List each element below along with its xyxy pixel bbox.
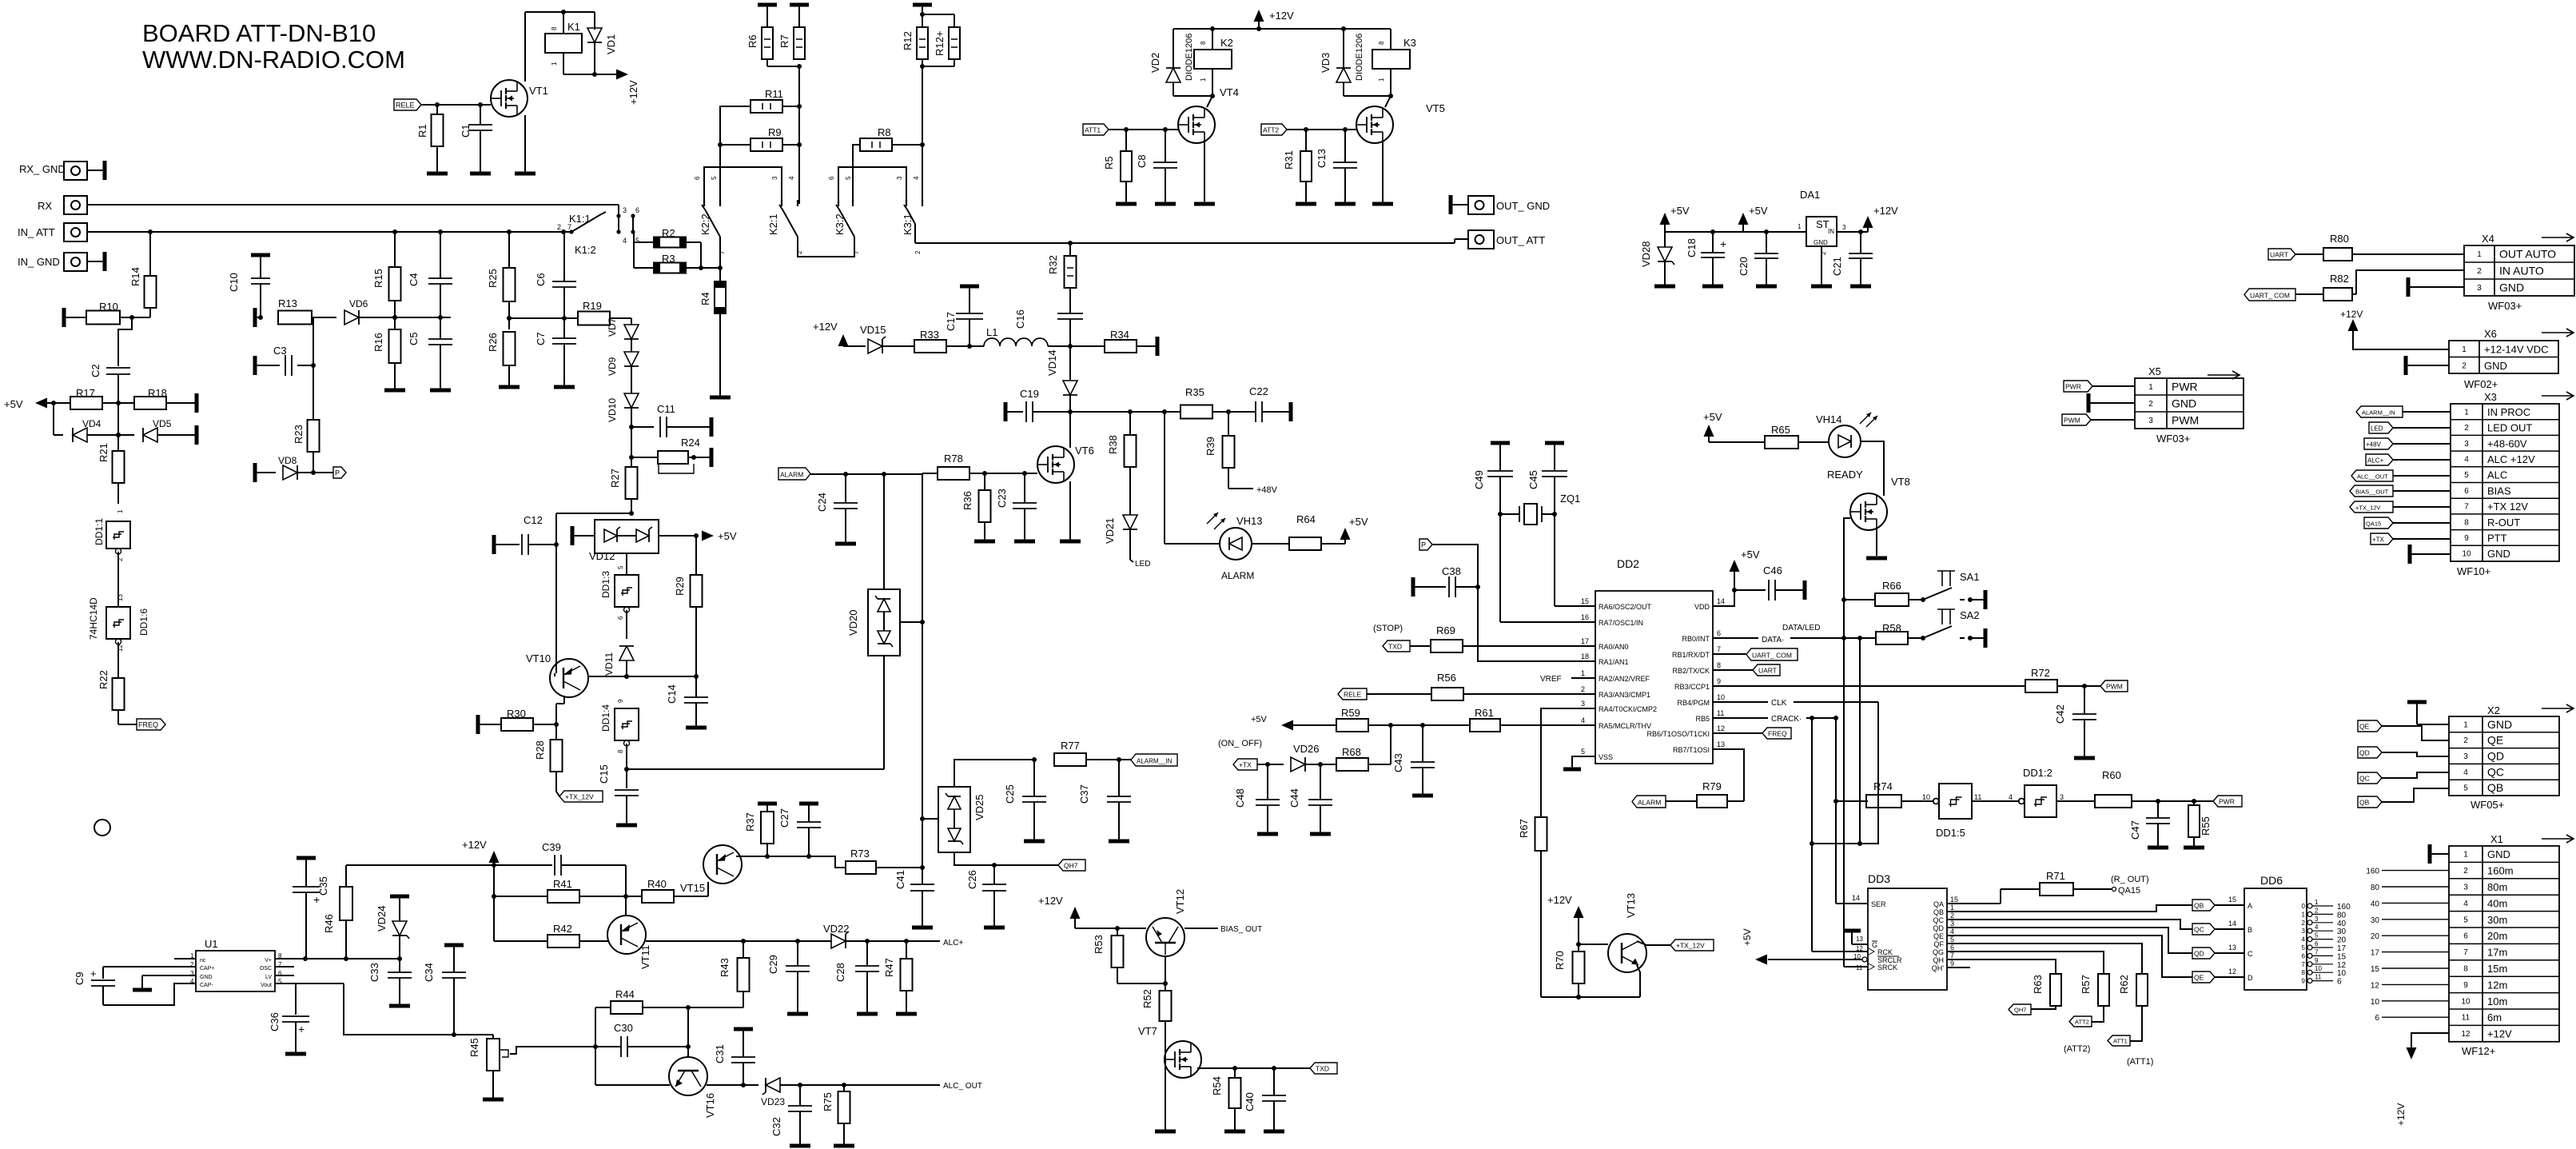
wire RELE to gate	[421, 102, 491, 107]
svg-text:R32: R32	[1047, 255, 1059, 274]
svg-text:2: 2	[557, 223, 561, 231]
capacitor C27	[778, 804, 821, 856]
switch K3:1	[896, 176, 922, 254]
svg-text:C15: C15	[598, 764, 610, 784]
power +12V arrow bl	[462, 839, 500, 868]
svg-text:C4: C4	[408, 273, 420, 286]
transistor VT7	[1138, 1025, 1201, 1078]
svg-text:READY: READY	[1827, 469, 1863, 481]
svg-text:VT4: VT4	[1220, 86, 1239, 98]
wire ATT2 gate	[1287, 127, 1356, 132]
svg-text:R4: R4	[699, 292, 711, 305]
resistor R60	[2095, 769, 2213, 808]
svg-text:C16: C16	[1014, 309, 1026, 329]
flag QB mid	[2192, 896, 2244, 911]
power +12V arrow RF	[813, 321, 866, 346]
flag FREQ DD2	[1713, 728, 1791, 739]
svg-text:+5V: +5V	[1703, 411, 1722, 423]
wire K1 bottom to +12V	[563, 72, 617, 77]
svg-text:0: 0	[2302, 903, 2306, 910]
flag QD mid	[2192, 944, 2244, 959]
capacitor C47	[2129, 801, 2170, 846]
svg-text:R11: R11	[765, 88, 783, 100]
svg-text:(ATT2): (ATT2)	[2064, 1044, 2090, 1054]
svg-text:VT8: VT8	[1891, 476, 1910, 488]
connector X2	[2449, 704, 2574, 811]
capacitor C44	[1288, 764, 1332, 832]
svg-text:14: 14	[1852, 894, 1860, 902]
svg-text:2: 2	[2302, 920, 2306, 927]
svg-text:WF02+: WF02+	[2464, 378, 2498, 390]
svg-text:(STOP): (STOP)	[1373, 624, 1403, 633]
svg-text:+TX: +TX	[1239, 761, 1252, 769]
svg-text:+5V: +5V	[4, 398, 23, 410]
svg-text:7: 7	[567, 223, 571, 231]
svg-text:C39: C39	[542, 841, 561, 853]
svg-text:C43: C43	[1392, 753, 1404, 772]
svg-text:R18: R18	[148, 387, 167, 399]
wire K3 pin4 col	[920, 66, 925, 204]
ground R4	[710, 396, 731, 400]
wire K3 pin5 col	[853, 145, 860, 204]
svg-text:VT11: VT11	[639, 945, 651, 969]
svg-text:12: 12	[1856, 945, 1863, 952]
svg-text:ATT1: ATT1	[2113, 1038, 2128, 1045]
svg-text:CRACK·: CRACK·	[1771, 715, 1802, 724]
wire RF mid row	[1070, 409, 1181, 414]
svg-text:R6: R6	[747, 34, 758, 48]
svg-text:QE: QE	[2194, 974, 2204, 982]
svg-text:2: 2	[914, 250, 922, 254]
svg-text:G: G	[1872, 941, 1877, 949]
wire R43 R44 row	[686, 1005, 743, 1010]
svg-text:WWW.DN-RADIO.COM: WWW.DN-RADIO.COM	[142, 46, 405, 74]
wire DD1:4 out	[627, 768, 884, 770]
svg-text:8: 8	[2463, 965, 2468, 974]
svg-text:RA0/AN0: RA0/AN0	[1599, 643, 1629, 651]
svg-text:R23: R23	[293, 425, 305, 444]
resistor R15	[372, 232, 401, 329]
text DIODE1206 K3	[1355, 34, 1364, 81]
capacitor C40	[1244, 1068, 1286, 1130]
svg-text:ALC +12V: ALC +12V	[2487, 453, 2535, 465]
diode VD5	[143, 418, 197, 442]
svg-text:P: P	[335, 469, 340, 477]
wire +12V rail bl	[346, 864, 552, 866]
svg-text:3: 3	[623, 206, 627, 214]
resistor R52	[1141, 989, 1172, 1130]
svg-text:7: 7	[2464, 503, 2469, 512]
resistor R13	[255, 297, 336, 327]
svg-text:+5V: +5V	[1742, 928, 1753, 946]
flag ATT2 out	[2064, 1016, 2092, 1054]
wire CRACK to RCK	[1811, 718, 1813, 844]
svg-text:QA15: QA15	[2118, 886, 2140, 896]
svg-text:C34: C34	[423, 963, 435, 982]
ground R47	[896, 1012, 917, 1016]
svg-text:C: C	[2248, 950, 2253, 958]
crystal ZQ1	[1500, 493, 1580, 525]
svg-text:+12V: +12V	[627, 80, 639, 105]
diode VD28	[1640, 232, 1674, 285]
transistor VT16	[669, 1057, 716, 1118]
svg-text:VT15: VT15	[680, 882, 705, 894]
svg-text:6: 6	[617, 616, 624, 620]
wire K2 pin5 col	[720, 106, 751, 204]
svg-text:VT12: VT12	[1174, 889, 1186, 914]
svg-text:RB2/TX/CK: RB2/TX/CK	[1672, 667, 1710, 675]
svg-text:7: 7	[1717, 645, 1721, 653]
svg-text:OUT_ GND: OUT_ GND	[1496, 200, 1550, 212]
ground VT6	[1060, 540, 1081, 544]
flag ALARM_IN X3	[2356, 406, 2451, 417]
wire VT10 emitter	[554, 696, 564, 727]
svg-text:R62: R62	[2118, 975, 2130, 994]
svg-text:C21: C21	[1831, 257, 1843, 276]
ground VT5	[1372, 202, 1393, 206]
ground R54	[1224, 1130, 1245, 1134]
wire K1 contacts	[619, 216, 634, 242]
svg-text:C19: C19	[1020, 388, 1039, 400]
power +5V arrow right VD12	[702, 530, 737, 542]
svg-text:DATA/LED: DATA/LED	[1782, 624, 1820, 632]
wire VT4 source	[1204, 142, 1205, 202]
svg-text:+5V: +5V	[1741, 549, 1760, 561]
resistor R1	[416, 105, 444, 172]
svg-text:R75: R75	[822, 1092, 834, 1111]
svg-text:QG: QG	[1933, 948, 1944, 956]
resistor R30	[478, 708, 556, 734]
svg-text:PWM: PWM	[2172, 414, 2199, 427]
svg-text:RA7/OSC1/IN: RA7/OSC1/IN	[1599, 619, 1643, 627]
svg-text:X5: X5	[2148, 365, 2161, 377]
wire +12V relay rail	[1173, 26, 1391, 31]
svg-text:VD22: VD22	[823, 923, 850, 935]
wire C12 col down	[555, 545, 557, 668]
flag QC X2	[2358, 772, 2449, 784]
svg-text:8: 8	[617, 749, 624, 753]
svg-text:C7: C7	[535, 332, 547, 345]
svg-text:C35: C35	[317, 876, 329, 896]
svg-text:7: 7	[2315, 948, 2319, 956]
svg-text:WF03+: WF03+	[2488, 300, 2522, 312]
inverter DD1:1	[94, 509, 130, 607]
svg-text:7: 7	[1950, 952, 1954, 959]
svg-text:R52: R52	[1141, 989, 1153, 1008]
wire K3:1 output	[915, 239, 1468, 245]
capacitor C17	[945, 286, 983, 346]
flag QH7	[1058, 860, 1085, 871]
capacitor C9	[74, 967, 115, 1005]
ground R26	[499, 385, 520, 389]
svg-text:ATT2: ATT2	[1263, 126, 1279, 134]
svg-text:RB7/T1OSI: RB7/T1OSI	[1673, 746, 1710, 754]
ground C33	[389, 1004, 410, 1008]
wire VT16 row	[595, 1084, 758, 1086]
svg-text:VT1: VT1	[529, 85, 548, 97]
svg-text:1: 1	[551, 62, 558, 66]
ground C44	[1310, 832, 1331, 836]
flag +TX_12V X3	[2350, 501, 2451, 513]
svg-text:C31: C31	[714, 1044, 726, 1063]
svg-text:1: 1	[1581, 669, 1585, 677]
svg-text:C32: C32	[770, 1117, 782, 1136]
svg-text:LED OUT: LED OUT	[2487, 422, 2532, 434]
capacitor C18	[1686, 232, 1726, 285]
svg-text:1: 1	[2477, 250, 2482, 259]
resistor R38	[1107, 412, 1137, 515]
svg-text:+12V: +12V	[2395, 1103, 2407, 1126]
wire R27 to C12 col	[554, 513, 631, 547]
wire K1 top rail	[525, 10, 595, 14]
terminator R34 right	[1156, 337, 1160, 356]
svg-text:ALARM__IN: ALARM__IN	[2362, 409, 2395, 417]
resistor R59	[1336, 707, 1470, 732]
wire VD20 bottom	[883, 656, 885, 769]
ground C5	[430, 389, 451, 393]
terminator R12 top	[913, 3, 932, 7]
ground R55	[2184, 846, 2204, 850]
svg-text:WF10+: WF10+	[2457, 565, 2490, 577]
capacitor C38	[1413, 565, 1478, 597]
diode VD2	[1149, 29, 1215, 98]
svg-text:K3: K3	[1403, 37, 1416, 49]
svg-text:+: +	[298, 1023, 305, 1035]
svg-text:R58: R58	[1882, 622, 1901, 634]
svg-text:DATA·: DATA·	[1762, 636, 1785, 644]
wire R13 down	[311, 317, 316, 368]
flag UART	[1713, 664, 1780, 676]
switch SA1	[1923, 571, 1984, 602]
svg-text:4: 4	[1950, 928, 1954, 936]
svg-text:9: 9	[2315, 957, 2319, 964]
svg-text:3: 3	[2302, 928, 2306, 935]
svg-text:+12-14V VDC: +12-14V VDC	[2484, 343, 2549, 355]
svg-text:QB: QB	[2194, 902, 2204, 910]
svg-text:RX_ GND: RX_ GND	[19, 163, 66, 175]
flag ATT1 out	[2108, 1035, 2153, 1067]
svg-text:GND: GND	[1814, 239, 1828, 246]
svg-text:P: P	[1421, 541, 1426, 549]
resistor R74	[1836, 780, 1933, 808]
resistor R16	[372, 329, 401, 389]
wire QE out	[1947, 936, 2192, 977]
flag UART_COM	[1713, 648, 1798, 660]
svg-text:C8: C8	[1136, 154, 1148, 168]
svg-text:10: 10	[2462, 550, 2471, 559]
svg-text:4: 4	[2463, 900, 2468, 908]
svg-text:R69: R69	[1436, 624, 1455, 636]
IC DD3 RCK pin	[1812, 945, 1893, 956]
diode VD9	[607, 352, 639, 393]
svg-text:10: 10	[1717, 693, 1725, 701]
svg-text:BIAS_ OUT: BIAS_ OUT	[1220, 925, 1262, 934]
terminator C46	[1803, 580, 1807, 600]
ground VT4	[1194, 202, 1215, 206]
text ON_OFF	[1218, 739, 1262, 748]
svg-text:13: 13	[1856, 936, 1863, 943]
terminator VD5 right	[195, 425, 199, 445]
resistor R67	[1518, 817, 1547, 997]
svg-text:C18: C18	[1686, 238, 1698, 257]
svg-text:ALC+: ALC+	[2367, 457, 2384, 465]
terminator X5 gnd	[2088, 393, 2135, 413]
resistor R79	[1666, 780, 1744, 808]
svg-text:8: 8	[2464, 518, 2469, 527]
svg-text:R45: R45	[468, 1038, 480, 1057]
svg-text:R72: R72	[2031, 667, 2050, 679]
wire CLK row	[1713, 699, 1878, 952]
svg-text:+: +	[90, 967, 97, 979]
ground C26	[984, 926, 1005, 930]
svg-text:R27: R27	[609, 469, 621, 488]
wire QH' stub	[1947, 967, 1970, 968]
resistor R7	[778, 5, 805, 59]
power +12V arrow VT12	[1038, 895, 1081, 928]
resistor R70	[1554, 944, 1585, 999]
svg-text:1: 1	[1950, 904, 1954, 912]
svg-text:IN_ ATT: IN_ ATT	[18, 226, 55, 238]
connector X1	[2449, 833, 2574, 1057]
text DIODE1206 K2	[1184, 34, 1194, 81]
svg-text:160m: 160m	[2487, 865, 2514, 877]
wire bracket K2	[704, 167, 782, 204]
resistor R73	[846, 848, 922, 874]
capacitor C48	[1234, 764, 1280, 832]
capacitor C1	[460, 105, 492, 172]
resistor R18	[134, 387, 197, 409]
wire left col bl	[493, 865, 495, 941]
svg-text:PWM: PWM	[2106, 683, 2123, 691]
terminator SA1	[1984, 590, 1988, 609]
svg-text:R57: R57	[2080, 975, 2092, 994]
wire ALARM row	[810, 472, 922, 477]
ground C47	[2148, 846, 2168, 850]
svg-text:VD3: VD3	[1320, 53, 1332, 73]
svg-text:17m: 17m	[2487, 947, 2507, 959]
svg-text:15: 15	[2337, 952, 2347, 961]
terminator X4 gnd	[2408, 277, 2464, 297]
svg-text:GND: GND	[200, 975, 213, 980]
svg-text:2: 2	[2148, 400, 2153, 409]
svg-text:R64: R64	[1296, 513, 1316, 525]
resistor R37	[744, 804, 777, 856]
svg-text:4: 4	[2463, 768, 2468, 777]
flag P DD2	[1419, 539, 1432, 550]
svg-text:R34: R34	[1110, 329, 1129, 341]
inverter DD1:6	[88, 594, 149, 678]
ground VSS	[1563, 768, 1581, 772]
transistor VT15	[680, 845, 742, 894]
wire VT13 collector	[1637, 941, 1670, 945]
resistor R8	[860, 126, 922, 151]
svg-text:QD: QD	[2359, 749, 2370, 757]
terminator X6 gnd	[2406, 356, 2449, 375]
svg-text:4: 4	[788, 176, 795, 180]
svg-text:GND: GND	[2172, 397, 2196, 410]
terminator R24 right	[710, 448, 714, 467]
IC DD3 box	[1868, 872, 1947, 990]
wire VT13 emitter	[1541, 965, 1640, 999]
svg-text:PTT: PTT	[2487, 532, 2507, 544]
svg-text:30m: 30m	[2487, 914, 2507, 926]
svg-text:C47: C47	[2129, 820, 2141, 840]
capacitor C33	[368, 959, 412, 1004]
svg-text:80m: 80m	[2487, 881, 2507, 893]
svg-text:13: 13	[2228, 944, 2236, 952]
resistor R33	[914, 329, 984, 353]
capacitor C5	[408, 317, 452, 389]
svg-text:DD1:1: DD1:1	[94, 518, 105, 545]
capacitor C20	[1738, 232, 1778, 285]
svg-text:R59: R59	[1341, 707, 1360, 719]
resistor R53	[1093, 928, 1168, 986]
svg-text:74HC14D: 74HC14D	[88, 597, 99, 640]
svg-text:R65: R65	[1771, 424, 1790, 436]
svg-text:GND: GND	[2487, 548, 2510, 560]
svg-text:QH: QH	[1933, 956, 1945, 964]
svg-text:R46: R46	[323, 914, 335, 933]
flag QE mid	[2192, 967, 2244, 983]
switch SA2	[1923, 609, 1984, 640]
svg-text:5: 5	[2464, 471, 2469, 480]
ground C23	[1014, 540, 1035, 544]
svg-text:R13: R13	[278, 297, 297, 309]
diode VD7	[607, 317, 639, 352]
svg-text:30: 30	[2337, 928, 2347, 936]
svg-text:R2: R2	[662, 227, 675, 239]
svg-text:R63: R63	[2032, 975, 2044, 994]
inductor L1	[984, 326, 1105, 349]
diode VD8	[255, 455, 333, 482]
resistor R28	[534, 724, 563, 796]
svg-text:6: 6	[828, 176, 835, 180]
svg-text:2: 2	[2477, 267, 2482, 276]
svg-text:R43: R43	[719, 958, 731, 977]
svg-text:WF12+: WF12+	[2462, 1045, 2495, 1057]
wire +TX to VD26	[1257, 762, 1284, 767]
diode VD24	[376, 896, 409, 959]
wire QD out	[1947, 928, 2192, 953]
wire R44 col	[593, 1007, 598, 1085]
terminator X3 gnd	[2410, 545, 2451, 564]
capacitor C45	[1527, 443, 1567, 517]
resistor R57	[2080, 974, 2109, 1022]
wire VT15 collector	[736, 854, 846, 868]
connector IN_GND	[18, 252, 105, 271]
flag RELE	[394, 99, 421, 110]
capacitor C2	[90, 364, 130, 403]
wire pin13 to R79	[1713, 749, 1744, 801]
svg-text:+48V: +48V	[2366, 441, 2382, 449]
wire VT5 source	[1382, 142, 1384, 202]
svg-text:+48V: +48V	[1256, 485, 1278, 495]
fiducial circle	[94, 820, 110, 836]
flag QD X2	[2358, 747, 2449, 758]
svg-text:C26: C26	[966, 870, 978, 889]
flag TXD stop	[1383, 640, 1410, 652]
capacitor C23	[996, 473, 1037, 540]
svg-text:C2: C2	[90, 364, 102, 377]
svg-text:R5: R5	[1103, 156, 1115, 170]
resistor R41	[492, 878, 628, 903]
text STOP	[1373, 624, 1403, 633]
svg-text:+: +	[1720, 237, 1726, 250]
svg-text:IN PROC: IN PROC	[2487, 406, 2530, 418]
capacitor C34	[423, 945, 466, 1035]
svg-text:C36: C36	[269, 1012, 281, 1031]
IC DD3 G pin	[1843, 931, 1877, 949]
